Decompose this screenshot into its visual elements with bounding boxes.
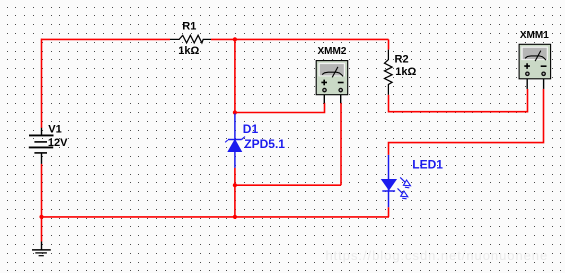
wire D1 branch upper (top rail to node) bbox=[234, 39, 236, 113]
svg-text:12V: 12V bbox=[48, 137, 68, 149]
svg-text:1kΩ: 1kΩ bbox=[178, 45, 199, 57]
node junction D1 top / XMM2 bbox=[233, 110, 237, 114]
wire bottom rail bbox=[42, 216, 390, 218]
LED1 emission arrow 2 bbox=[398, 188, 403, 193]
svg-text:R2: R2 bbox=[395, 54, 409, 66]
svg-text:ZPD5.1: ZPD5.1 bbox=[244, 137, 285, 151]
wire node to XMM2 plus terminal bbox=[235, 103, 325, 113]
resistor R2 bbox=[385, 50, 393, 95]
battery V1 bbox=[29, 128, 54, 164]
node junction V1 / ground / bottom rail bbox=[39, 215, 43, 219]
svg-text:XMM2: XMM2 bbox=[318, 46, 347, 57]
wire top rail right (R1 to R2 corner) bbox=[211, 38, 389, 40]
wire top rail left (V1 to R1) bbox=[41, 38, 170, 40]
node junction D1 branch / bottom rail bbox=[233, 215, 237, 219]
svg-text:R1: R1 bbox=[182, 20, 196, 32]
wire XMM1 minus terminal to LED top bbox=[389, 89, 544, 155]
svg-text:LED1: LED1 bbox=[412, 158, 443, 172]
wire R2 bottom to XMM1 plus terminal bbox=[389, 89, 528, 112]
resistor R1 bbox=[170, 35, 211, 43]
wire D1 bottom node to XMM2 minus bbox=[235, 184, 341, 186]
node junction D1 bottom / XMM2 minus bbox=[233, 183, 237, 187]
LED1 emission arrow 1 bbox=[400, 177, 405, 182]
LED LED1 bbox=[382, 155, 411, 207]
svg-text:D1: D1 bbox=[243, 122, 259, 136]
wire D1 branch lower (D1 to bottom rail) bbox=[234, 168, 236, 217]
svg-text:XMM1: XMM1 bbox=[520, 30, 549, 41]
wire LED bottom to bottom rail bbox=[388, 207, 390, 217]
multimeter XMM2 bbox=[316, 61, 348, 104]
node junction top rail / D1 branch bbox=[233, 37, 237, 41]
ground bbox=[32, 242, 51, 256]
wire top rail corner down to R2 bbox=[388, 39, 390, 49]
svg-text:1kΩ: 1kΩ bbox=[395, 66, 416, 78]
multimeter XMM1 bbox=[519, 44, 551, 89]
wire left vertical lower (V1 to bottom rail) bbox=[41, 164, 43, 217]
wire ground stem bbox=[41, 217, 43, 242]
zener diode D1 bbox=[225, 114, 245, 168]
wire XMM2 minus terminal down bbox=[340, 103, 342, 185]
wire left vertical upper (top rail to V1) bbox=[41, 39, 43, 128]
svg-text:V1: V1 bbox=[48, 124, 61, 136]
svg-text:https://blog.csdn.net/nuonuone: https://blog.csdn.net/nuonuonene bbox=[326, 248, 549, 263]
